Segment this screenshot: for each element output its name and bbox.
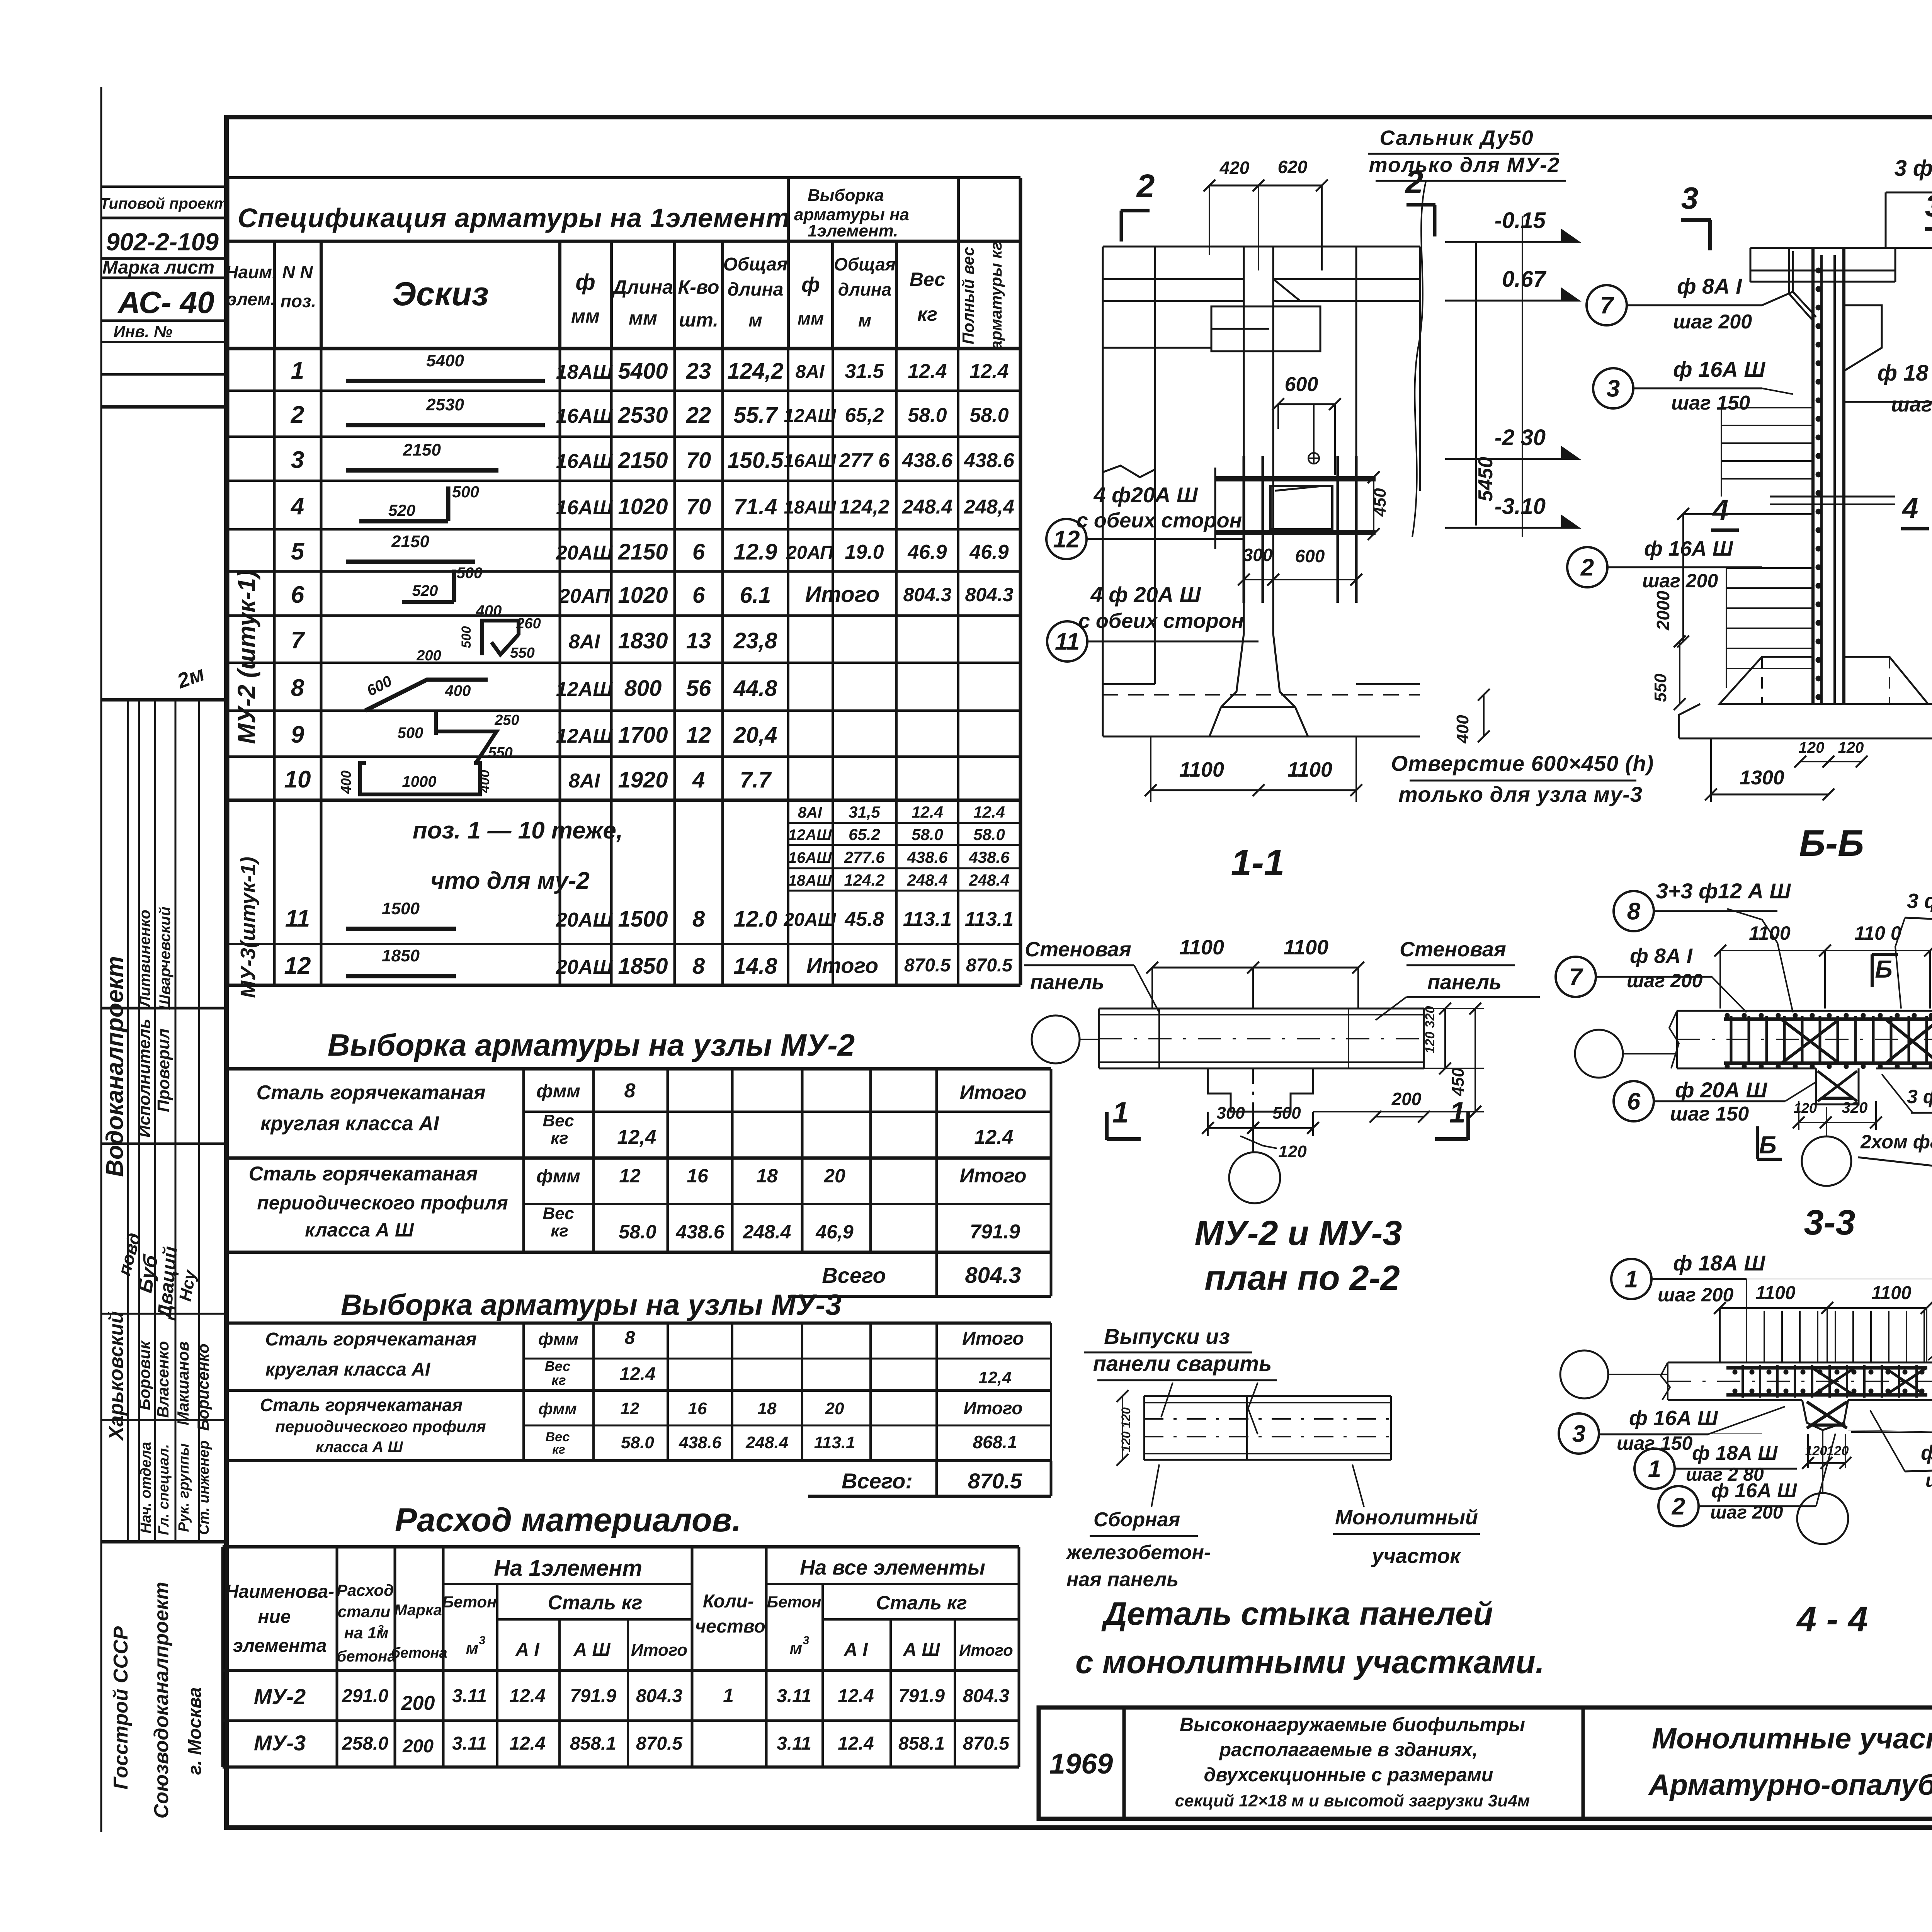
svg-text:с монолитными участками.: с монолитными участками. [1075, 1644, 1544, 1680]
svg-text:7: 7 [1569, 964, 1583, 991]
svg-text:МУ-3: МУ-3 [254, 1731, 306, 1755]
svg-text:23: 23 [686, 359, 711, 384]
svg-text:1-1: 1-1 [1231, 842, 1285, 883]
svg-text:58.0: 58.0 [973, 825, 1005, 844]
svg-text:2150: 2150 [617, 539, 668, 565]
svg-text:868.1: 868.1 [973, 1432, 1017, 1452]
svg-text:250: 250 [494, 712, 519, 728]
svg-text:12.4: 12.4 [974, 1126, 1013, 1148]
svg-text:Сборная: Сборная [1094, 1509, 1180, 1531]
svg-text:20: 20 [825, 1399, 844, 1418]
svg-text:31,5: 31,5 [849, 803, 880, 821]
svg-text:3: 3 [1607, 376, 1620, 402]
svg-text:46,9: 46,9 [815, 1221, 854, 1243]
svg-text:шаг 200: шаг 200 [1710, 1502, 1783, 1523]
svg-text:120 120: 120 120 [1119, 1407, 1133, 1452]
svg-text:3.11: 3.11 [452, 1686, 487, 1706]
svg-text:438.6: 438.6 [906, 848, 948, 866]
svg-text:2: 2 [1580, 554, 1594, 581]
svg-text:с обеих сторон: с обеих сторон [1077, 509, 1242, 532]
svg-text:длина: длина [728, 279, 784, 300]
svg-text:элем.: элем. [227, 289, 276, 309]
svg-text:1500: 1500 [382, 899, 420, 918]
svg-text:248.4: 248.4 [902, 496, 952, 518]
svg-text:Водоканалпроект: Водоканалпроект [102, 956, 128, 1177]
svg-text:ние: ние [258, 1607, 291, 1627]
svg-text:120: 120 [1278, 1142, 1307, 1161]
svg-text:1300: 1300 [1740, 767, 1784, 789]
svg-text:500: 500 [398, 724, 423, 742]
svg-text:320: 320 [1842, 1099, 1868, 1116]
svg-text:Итого: Итого [959, 1641, 1013, 1659]
svg-text:МУ-3(штук-1): МУ-3(штук-1) [236, 857, 260, 998]
svg-text:Расход: Расход [337, 1581, 394, 1599]
svg-text:0.67: 0.67 [1502, 267, 1547, 292]
svg-text:кг: кг [917, 303, 937, 325]
svg-text:Общая: Общая [723, 254, 788, 275]
svg-text:м: м [466, 1639, 479, 1658]
svg-text:шаг 200: шаг 200 [1627, 970, 1702, 992]
svg-text:438.6: 438.6 [902, 449, 953, 472]
svg-text:18: 18 [756, 1165, 778, 1187]
svg-text:2: 2 [1672, 1493, 1685, 1520]
svg-text:Марка: Марка [394, 1602, 442, 1619]
svg-text:4 ф 20А Ш: 4 ф 20А Ш [1090, 582, 1201, 607]
svg-text:11: 11 [285, 905, 310, 932]
svg-text:55.7: 55.7 [734, 403, 779, 428]
svg-text:шаг 150: шаг 150 [1670, 1103, 1749, 1125]
svg-text:438.6: 438.6 [964, 449, 1015, 472]
svg-text:Стеновая: Стеновая [1025, 938, 1131, 961]
svg-text:Вес: Вес [543, 1111, 574, 1130]
svg-text:фмм: фмм [538, 1400, 577, 1418]
svg-text:12АШ: 12АШ [784, 406, 836, 426]
svg-text:902-2-109: 902-2-109 [106, 228, 219, 256]
svg-text:Сталь кг: Сталь кг [876, 1592, 967, 1614]
svg-text:7: 7 [291, 627, 305, 654]
svg-text:3.11: 3.11 [777, 1686, 811, 1706]
svg-text:Типовой проект: Типовой проект [100, 195, 228, 212]
svg-text:20АШ: 20АШ [556, 956, 613, 978]
svg-text:1700: 1700 [618, 723, 668, 748]
svg-text:мм: мм [571, 305, 600, 327]
svg-text:20АШ: 20АШ [556, 542, 613, 564]
svg-text:12.4: 12.4 [969, 360, 1009, 383]
svg-text:248.4: 248.4 [742, 1221, 791, 1243]
svg-text:2000: 2000 [1653, 590, 1673, 631]
svg-text:Сталь горячекатаная: Сталь горячекатаная [265, 1329, 476, 1350]
svg-text:длина: длина [838, 279, 892, 299]
svg-text:Харьковский: Харьковский [105, 1311, 128, 1441]
svg-text:Всего:: Всего: [842, 1469, 913, 1493]
svg-text:5: 5 [291, 538, 305, 565]
svg-text:Длина: Длина [611, 276, 673, 298]
svg-text:16АШ: 16АШ [556, 497, 613, 519]
svg-text:А I: А I [844, 1639, 868, 1660]
svg-text:1100: 1100 [1284, 936, 1328, 959]
svg-text:АС- 40: АС- 40 [117, 285, 214, 320]
svg-text:Монолитные участки МУ-2. МУ-: Монолитные участки МУ-2. МУ-3. [1652, 1722, 1932, 1755]
svg-text:12.4: 12.4 [973, 803, 1005, 821]
svg-text:12.4: 12.4 [838, 1686, 874, 1706]
svg-text:м: м [748, 310, 762, 331]
svg-text:панели сварить: панели сварить [1093, 1351, 1272, 1376]
svg-text:1: 1 [1449, 1096, 1466, 1129]
svg-text:Шварчевский: Шварчевский [156, 906, 173, 1010]
svg-text:550: 550 [488, 745, 512, 761]
svg-text:Наим.: Наим. [225, 262, 277, 282]
svg-text:Вес: Вес [543, 1204, 574, 1223]
svg-text:располагаемые в зданиях,: располагаемые в зданиях, [1219, 1739, 1478, 1760]
svg-text:124,2: 124,2 [839, 496, 889, 518]
svg-text:870.5: 870.5 [636, 1733, 683, 1754]
svg-text:Итого: Итого [964, 1398, 1023, 1418]
svg-text:19.0: 19.0 [845, 541, 884, 563]
svg-text:46.9: 46.9 [907, 541, 947, 563]
svg-text:Арматурно-опалубочный чертеж.: Арматурно-опалубочный чертеж. [1648, 1769, 1932, 1801]
svg-text:12.4: 12.4 [908, 360, 947, 383]
svg-text:ф 16А Ш: ф 16А Ш [1711, 1480, 1797, 1502]
svg-text:2150: 2150 [617, 448, 668, 473]
svg-text:2: 2 [291, 401, 304, 428]
svg-text:Б: Б [1875, 955, 1892, 983]
svg-text:На 1элемент: На 1элемент [494, 1556, 642, 1581]
svg-text:12: 12 [619, 1165, 641, 1187]
svg-text:Полный вес: Полный вес [959, 247, 977, 344]
svg-text:11: 11 [1055, 629, 1080, 655]
svg-text:Отверстие 600×450 (h): Отверстие 600×450 (h) [1391, 751, 1654, 776]
svg-text:круглая класса АI: круглая класса АI [265, 1359, 431, 1380]
svg-text:8: 8 [692, 906, 705, 932]
svg-text:Спецификация арматуры на 1элем: Спецификация арматуры на 1элемент [238, 203, 790, 233]
svg-text:-0.15: -0.15 [1495, 208, 1546, 233]
svg-text:804.3: 804.3 [903, 584, 951, 605]
svg-text:фмм: фмм [538, 1330, 578, 1349]
svg-text:8: 8 [625, 1328, 635, 1348]
svg-text:420: 420 [1219, 158, 1250, 178]
svg-text:Б-Б: Б-Б [1799, 823, 1864, 864]
svg-text:Сальник Ду50: Сальник Ду50 [1379, 126, 1534, 150]
svg-text:12: 12 [1053, 526, 1080, 553]
svg-text:только для МУ-2: только для МУ-2 [1369, 153, 1560, 177]
svg-text:4: 4 [692, 767, 705, 793]
svg-text:4: 4 [290, 493, 304, 520]
svg-text:Вес: Вес [545, 1358, 570, 1374]
svg-text:1: 1 [1112, 1096, 1129, 1129]
svg-text:панель: панель [1427, 971, 1502, 994]
svg-text:58.0: 58.0 [908, 404, 947, 427]
svg-text:К-во: К-во [678, 276, 719, 298]
svg-text:124,2: 124,2 [727, 359, 783, 384]
svg-text:800: 800 [624, 676, 662, 701]
svg-text:870.5: 870.5 [904, 955, 951, 976]
svg-text:804.3: 804.3 [963, 1686, 1009, 1706]
svg-text:ф 18А Ш: ф 18А Ш [1692, 1442, 1778, 1464]
svg-text:1: 1 [1625, 1266, 1638, 1293]
svg-text:ф 16А Ш: ф 16А Ш [1644, 537, 1733, 560]
svg-text:секций 12×18 м и высотой загру: секций 12×18 м и высотой загрузки 3и4м [1175, 1791, 1530, 1810]
svg-text:120 320: 120 320 [1423, 1006, 1437, 1053]
svg-text:3: 3 [1681, 181, 1699, 215]
svg-text:2150: 2150 [403, 440, 441, 459]
svg-text:4 - 4: 4 - 4 [1796, 1600, 1868, 1639]
svg-text:12.4: 12.4 [509, 1733, 545, 1754]
svg-text:120: 120 [1794, 1100, 1817, 1116]
svg-text:110 0: 110 0 [1854, 922, 1901, 944]
svg-text:620: 620 [1278, 157, 1308, 177]
svg-text:3: 3 [1572, 1421, 1585, 1447]
svg-text:Эскиз: Эскиз [392, 276, 489, 313]
svg-text:277 6: 277 6 [839, 449, 890, 472]
svg-text:Итого: Итого [631, 1641, 687, 1660]
svg-text:Деталь стыка панелей: Деталь стыка панелей [1101, 1595, 1493, 1632]
svg-text:450: 450 [1449, 1068, 1468, 1097]
svg-text:3: 3 [291, 447, 304, 473]
svg-text:858.1: 858.1 [898, 1733, 945, 1754]
svg-text:бетона: бетона [391, 1645, 447, 1661]
svg-text:71.4: 71.4 [734, 494, 777, 519]
svg-text:участок: участок [1371, 1544, 1461, 1568]
svg-text:18АШ: 18АШ [784, 497, 836, 518]
svg-text:16АШ: 16АШ [556, 450, 613, 473]
svg-text:6.1: 6.1 [740, 583, 771, 608]
svg-text:500: 500 [1272, 1104, 1301, 1122]
svg-text:двухсекционные с размерами: двухсекционные с размерами [1204, 1764, 1493, 1786]
svg-text:400: 400 [476, 770, 492, 793]
svg-text:1100: 1100 [1755, 1283, 1796, 1303]
svg-text:шаг 200: шаг 200 [1673, 311, 1752, 333]
svg-text:Итого: Итого [962, 1328, 1024, 1349]
svg-text:поз.: поз. [281, 291, 316, 311]
svg-text:Общая: Общая [834, 254, 896, 274]
svg-text:6: 6 [1627, 1088, 1641, 1115]
svg-text:400: 400 [1453, 715, 1472, 744]
svg-text:что для му-2: что для му-2 [430, 867, 590, 894]
svg-text:870.5: 870.5 [966, 955, 1013, 976]
svg-text:ф 16А Ш: ф 16А Ш [1921, 1441, 1932, 1464]
svg-text:6: 6 [692, 539, 705, 565]
svg-text:16АШ: 16АШ [788, 849, 832, 866]
svg-text:120: 120 [1799, 739, 1825, 756]
svg-text:12.9: 12.9 [734, 539, 777, 565]
svg-text:план по 2-2: план по 2-2 [1204, 1259, 1400, 1298]
svg-text:шаг 150: шаг 150 [1925, 1469, 1932, 1491]
svg-text:248.4: 248.4 [906, 871, 947, 889]
svg-text:Литвиненко: Литвиненко [136, 910, 153, 1008]
svg-text:18АШ: 18АШ [788, 872, 832, 889]
svg-text:железобетон-: железобетон- [1065, 1541, 1211, 1564]
svg-text:Итого: Итого [960, 1165, 1027, 1187]
svg-text:Расход материалов.: Расход материалов. [395, 1502, 741, 1539]
svg-text:1100: 1100 [1287, 758, 1332, 781]
svg-text:1: 1 [723, 1685, 734, 1706]
svg-text:ф: ф [801, 273, 820, 296]
svg-text:Итого: Итого [805, 582, 880, 607]
svg-text:чество: чество [695, 1616, 765, 1637]
svg-text:фмм: фмм [536, 1166, 580, 1187]
svg-text:12.0: 12.0 [734, 906, 777, 932]
svg-text:2: 2 [1136, 168, 1155, 204]
svg-text:Рук. группы: Рук. группы [176, 1443, 192, 1532]
svg-text:804.3: 804.3 [965, 584, 1013, 605]
svg-text:Вес: Вес [910, 269, 946, 290]
svg-text:Союзводоканалпроект: Союзводоканалпроект [150, 1582, 173, 1819]
svg-text:А Ш: А Ш [903, 1639, 940, 1660]
svg-text:шаг 150: шаг 150 [1617, 1432, 1692, 1454]
svg-text:12АШ: 12АШ [556, 678, 613, 701]
svg-text:Сталь кг: Сталь кг [548, 1592, 642, 1614]
svg-text:Коли-: Коли- [703, 1591, 754, 1612]
svg-text:12: 12 [284, 952, 311, 979]
svg-text:20АП: 20АП [786, 543, 834, 563]
svg-text:150.5: 150.5 [727, 448, 784, 473]
svg-text:4: 4 [1712, 494, 1728, 526]
svg-text:Боровик: Боровик [135, 1340, 153, 1410]
svg-text:870.5: 870.5 [968, 1469, 1022, 1493]
svg-text:1элемент.: 1элемент. [808, 221, 898, 240]
svg-text:20АШ: 20АШ [783, 910, 836, 930]
svg-text:18: 18 [758, 1399, 777, 1418]
svg-text:1020: 1020 [618, 583, 668, 608]
svg-text:стали: стали [338, 1602, 390, 1621]
svg-text:113.1: 113.1 [903, 908, 952, 930]
svg-text:Наименова-: Наименова- [225, 1582, 334, 1602]
svg-text:кг: кг [551, 1129, 568, 1148]
svg-text:арматуры кг: арматуры кг [987, 241, 1005, 349]
svg-text:1000: 1000 [402, 773, 437, 790]
svg-text:г. Москва: г. Москва [185, 1687, 205, 1775]
svg-text:791.9: 791.9 [898, 1686, 945, 1706]
svg-text:МУ-2 и МУ-3: МУ-2 и МУ-3 [1195, 1214, 1402, 1253]
svg-text:ф 16А Ш: ф 16А Ш [1673, 357, 1765, 381]
svg-text:31.5: 31.5 [845, 360, 884, 383]
svg-text:804.3: 804.3 [965, 1263, 1021, 1288]
svg-text:10: 10 [284, 766, 311, 793]
svg-text:1100: 1100 [1871, 1283, 1912, 1303]
svg-text:ф: ф [575, 270, 595, 295]
svg-text:65.2: 65.2 [849, 825, 880, 844]
svg-text:класса А Ш: класса А Ш [316, 1439, 403, 1456]
svg-text:Б: Б [1759, 1131, 1776, 1159]
svg-text:12,4: 12,4 [617, 1126, 656, 1148]
svg-text:ф 16А Ш: ф 16А Ш [1629, 1406, 1718, 1430]
svg-text:Бетон: Бетон [767, 1593, 821, 1611]
svg-text:520: 520 [388, 501, 415, 519]
svg-text:мм: мм [629, 307, 657, 329]
svg-text:1020: 1020 [618, 494, 668, 519]
svg-text:-2 30: -2 30 [1495, 425, 1546, 450]
svg-text:70: 70 [686, 494, 711, 519]
svg-text:периодического профиля: периодического профиля [275, 1417, 486, 1435]
svg-text:А I: А I [515, 1639, 540, 1660]
svg-text:круглая класса АI: круглая класса АI [260, 1112, 439, 1135]
svg-text:3.11: 3.11 [777, 1733, 811, 1754]
svg-text:13: 13 [686, 628, 711, 653]
svg-text:16: 16 [688, 1399, 707, 1418]
svg-text:870.5: 870.5 [963, 1733, 1010, 1754]
svg-text:ф 20А Ш: ф 20А Ш [1675, 1078, 1767, 1102]
svg-text:класса А Ш: класса А Ш [305, 1219, 414, 1241]
svg-text:500: 500 [457, 565, 483, 582]
svg-text:500: 500 [459, 626, 474, 648]
svg-text:400: 400 [338, 770, 354, 794]
svg-text:Проверил: Проверил [154, 1029, 173, 1112]
svg-text:12: 12 [686, 723, 711, 748]
svg-text:16: 16 [687, 1165, 709, 1187]
svg-text:791.9: 791.9 [570, 1686, 616, 1706]
svg-text:кг: кг [551, 1372, 566, 1388]
svg-text:3: 3 [803, 1634, 810, 1647]
svg-text:400: 400 [476, 602, 502, 619]
svg-text:8АI: 8АI [569, 770, 600, 792]
svg-text:20,4: 20,4 [733, 723, 777, 748]
svg-text:200: 200 [401, 1692, 435, 1714]
svg-text:12.4: 12.4 [838, 1733, 874, 1754]
svg-text:113.1: 113.1 [814, 1433, 855, 1452]
svg-text:438.6: 438.6 [675, 1221, 724, 1243]
svg-text:мм: мм [798, 308, 824, 328]
svg-text:3 ф 20А Ш: 3 ф 20А Ш [1907, 889, 1932, 913]
svg-text:Монолитный: Монолитный [1335, 1506, 1478, 1529]
svg-text:Сталь горячекатаная: Сталь горячекатаная [249, 1163, 478, 1185]
svg-text:поз. 1 — 10 теже,: поз. 1 — 10 теже, [413, 817, 623, 844]
svg-text:8АI: 8АI [569, 631, 600, 653]
svg-text:2530: 2530 [617, 403, 668, 428]
svg-text:520: 520 [412, 582, 438, 599]
svg-text:113.1: 113.1 [965, 908, 1014, 930]
svg-text:44.8: 44.8 [733, 676, 778, 701]
svg-text:438.6: 438.6 [679, 1433, 722, 1452]
svg-text:7.7: 7.7 [740, 767, 772, 793]
svg-text:3: 3 [1925, 189, 1932, 223]
svg-text:3: 3 [479, 1634, 486, 1647]
svg-text:1850: 1850 [618, 954, 668, 979]
svg-text:Госстрой СССР: Госстрой СССР [110, 1626, 132, 1790]
svg-text:8: 8 [624, 1080, 636, 1102]
svg-text:Выборка: Выборка [808, 186, 884, 205]
svg-text:58.0: 58.0 [969, 404, 1009, 427]
svg-text:45.8: 45.8 [844, 908, 884, 930]
svg-text:858.1: 858.1 [570, 1733, 616, 1754]
svg-text:5400: 5400 [618, 359, 668, 384]
svg-text:12,4: 12,4 [978, 1368, 1012, 1387]
svg-text:20АШ: 20АШ [556, 909, 613, 931]
svg-text:65,2: 65,2 [845, 404, 884, 427]
svg-text:Стеновая: Стеновая [1400, 938, 1506, 961]
svg-text:с обеих сторон: с обеих сторон [1078, 609, 1244, 633]
svg-text:200: 200 [416, 648, 441, 664]
svg-text:Нач. отдела: Нач. отдела [138, 1442, 154, 1534]
svg-text:14.8: 14.8 [734, 954, 778, 979]
svg-text:Гл. специал.: Гл. специал. [156, 1444, 172, 1535]
svg-text:500: 500 [452, 483, 479, 501]
svg-text:58.0: 58.0 [912, 825, 943, 844]
svg-text:200: 200 [402, 1736, 434, 1757]
svg-text:Власенко: Власенко [154, 1341, 172, 1418]
svg-text:кг: кг [551, 1221, 568, 1240]
svg-text:6: 6 [291, 582, 304, 608]
svg-text:1: 1 [291, 357, 304, 384]
svg-text:бетона: бетона [337, 1648, 396, 1665]
svg-text:12АШ: 12АШ [788, 827, 832, 844]
svg-text:300: 300 [1243, 545, 1273, 565]
svg-text:300: 300 [1216, 1104, 1245, 1122]
svg-text:9: 9 [291, 721, 304, 748]
svg-text:шаг 200: шаг 200 [1642, 570, 1718, 592]
svg-text:46.9: 46.9 [969, 541, 1009, 563]
svg-text:МУ-2 (штук-1): МУ-2 (штук-1) [233, 570, 260, 744]
svg-text:шаг 200: шаг 200 [1658, 1284, 1733, 1306]
